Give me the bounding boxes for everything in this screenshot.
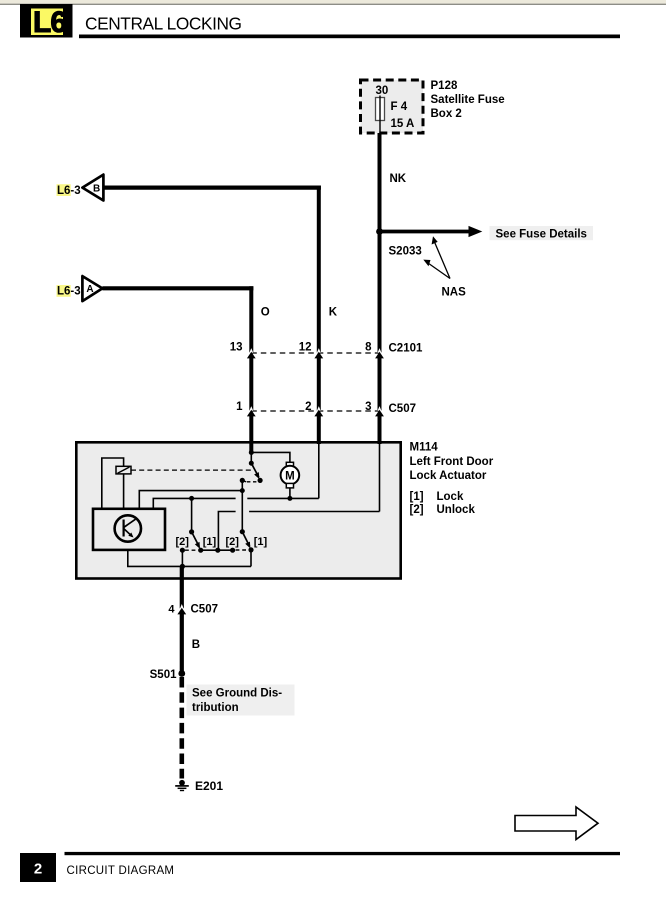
- mechanical linkage coil to relay contact (dashed): [131, 469, 253, 471]
- left switch alternative position (dashed): [185, 549, 198, 551]
- wire NK descent inside box: [379, 443, 381, 512]
- junction motor bottom: [287, 496, 292, 501]
- connector C507 pin 2: [305, 401, 323, 416]
- wire coil branch left: [102, 458, 124, 509]
- svg-text:E201: E201: [195, 779, 223, 793]
- wire relay pivot stub: [250, 453, 252, 464]
- page top scan strip: [0, 0, 666, 5]
- inline connector L6-3 A label: [57, 285, 81, 298]
- wire position-2 contact down: [181, 550, 183, 566]
- svg-text:See Ground Dis-: See Ground Dis-: [192, 688, 282, 700]
- wire O between connectors: [249, 358, 253, 411]
- wire K descent inside box: [318, 443, 320, 498]
- wire common return to key box bottom: [128, 550, 251, 567]
- connector C2101 pin 12: [299, 342, 323, 359]
- NAS pointer arrow to S2033: [423, 260, 450, 279]
- relay contact alternative position (dashed): [247, 481, 258, 483]
- footer rule: [65, 852, 621, 855]
- connector row C507 dashed line: [251, 410, 379, 412]
- wire B below connector: [180, 614, 184, 674]
- inline connector triangle B: [82, 175, 103, 201]
- connector C507 pin 4: [168, 604, 218, 616]
- relay switch pivot: [249, 461, 254, 466]
- header title CENTRAL LOCKING: [79, 14, 620, 39]
- contact node NK: [215, 548, 220, 553]
- wire junction to key box top: [139, 491, 242, 509]
- connector C2101 pin 13: [230, 342, 256, 359]
- component label M114 Left Front Door Lock Actuator: [410, 442, 494, 517]
- component label P128 Satellite Fuse Box 2: [431, 80, 505, 120]
- wire motor bottom to key box (left segment with crossover break): [153, 498, 235, 508]
- connector C507 pin 1: [236, 401, 256, 416]
- wire K between connectors: [317, 358, 321, 411]
- right lock switch: [240, 529, 254, 552]
- inline connector triangle A: [82, 276, 102, 301]
- relay switch blade: [251, 463, 262, 483]
- motor M: [281, 462, 300, 488]
- contact end node: [230, 548, 235, 553]
- relay coil: [116, 466, 131, 474]
- wire O vertical down to C2101: [249, 286, 253, 352]
- splice node S501: [178, 670, 185, 677]
- connector C2101 pin 8: [365, 342, 384, 359]
- wire NK left segment with crossover break: [218, 512, 235, 551]
- relay switch contact node: [240, 478, 247, 483]
- wire motor top feed: [251, 452, 290, 462]
- wire NK between connectors: [378, 358, 382, 411]
- header badge L6: [20, 4, 73, 39]
- wire B output from actuator: [180, 566, 184, 608]
- left lock switch: [189, 529, 203, 553]
- wire motor bottom to K (right segment): [247, 497, 318, 499]
- key switch box: [93, 509, 165, 550]
- wire contact down to lower switch pivot: [241, 480, 243, 531]
- connector row C2101 dashed line: [251, 352, 379, 354]
- wire O horizontal from connector A: [102, 286, 253, 290]
- fuse F4 symbol: [376, 98, 385, 121]
- splice node S2033: [376, 228, 383, 235]
- junction to left lock switch: [189, 496, 194, 501]
- wire K into actuator: [317, 416, 321, 445]
- footer page badge 2: [20, 853, 56, 882]
- wire NK to left switch contact (right segment): [249, 511, 379, 513]
- svg-text:S501: S501: [150, 669, 177, 681]
- svg-text:B: B: [192, 639, 200, 651]
- left switch position 2 contact: [180, 548, 185, 553]
- right switch alternative position (dashed): [236, 549, 248, 551]
- wire through fuse: [379, 96, 381, 134]
- note See Fuse Details: [490, 226, 594, 240]
- wire motor bottom: [289, 488, 291, 499]
- switch position labels [2] [1] [2] [1]: [175, 536, 267, 548]
- page turn arrow: [515, 807, 598, 840]
- fuse box P128 outline: [361, 80, 424, 133]
- wire K vertical down to C2101: [317, 186, 321, 353]
- note See Ground Distribution: [187, 685, 295, 716]
- ground wire (dashed) to E201: [180, 677, 185, 779]
- wire blade tip to NK contact: [201, 549, 233, 551]
- key switch symbol: [115, 515, 141, 541]
- left lock switch pivot wire: [191, 498, 193, 532]
- actuator M114 box: [76, 442, 400, 578]
- svg-text:2: 2: [34, 861, 42, 878]
- inline connector L6-3 B label: [57, 184, 81, 197]
- wire NK from fuse down to connector C2101: [378, 133, 382, 353]
- NAS pointer arrow to fuse-details wire: [432, 236, 450, 278]
- junction to key box: [240, 488, 245, 493]
- wire right blade tip down: [250, 550, 252, 567]
- wire coil to key box: [123, 474, 125, 509]
- wire NK into actuator: [378, 416, 382, 445]
- arrow wire to See Fuse Details: [381, 226, 482, 237]
- connector C507 pin 3: [365, 401, 384, 416]
- wire K horizontal from connector B: [103, 186, 321, 190]
- svg-text:C507: C507: [191, 604, 219, 616]
- junction output: [180, 564, 185, 569]
- wire O into actuator: [249, 416, 253, 453]
- svg-text:tribution: tribution: [192, 702, 239, 714]
- ground E201: [175, 780, 189, 791]
- node O junction at motor feed: [249, 450, 254, 455]
- svg-text:4: 4: [168, 604, 175, 616]
- svg-text:CIRCUIT DIAGRAM: CIRCUIT DIAGRAM: [67, 865, 175, 877]
